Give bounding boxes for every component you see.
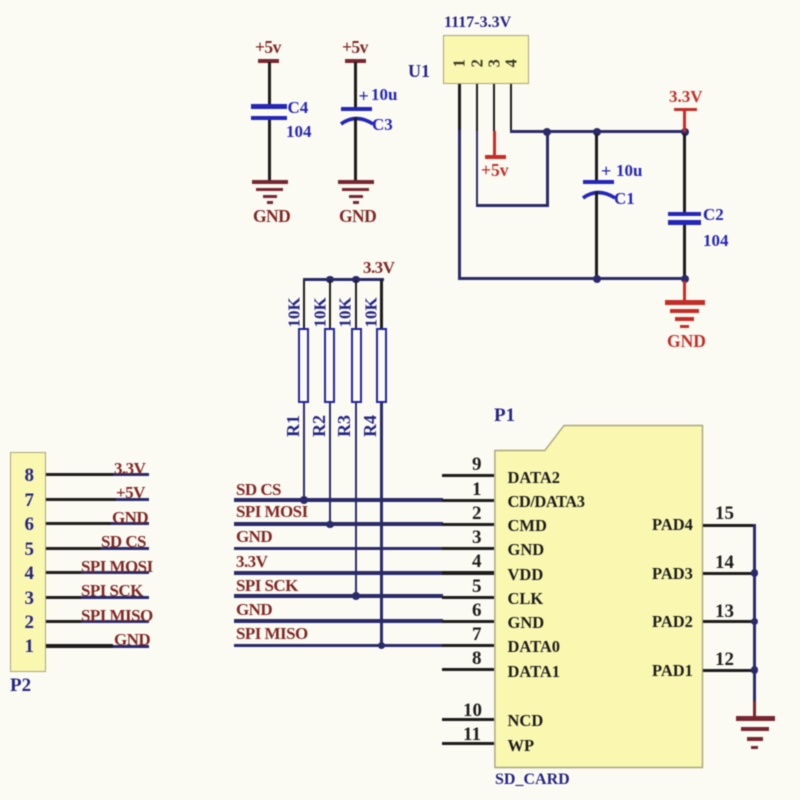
P1 label CMD — [508, 518, 547, 535]
P1 pin 5 number — [472, 577, 482, 596]
plus sign (C1) — [601, 162, 611, 180]
+5v label (C4) — [255, 39, 281, 57]
+5v label (C3) — [342, 39, 368, 57]
resistor R4 body — [376, 328, 387, 403]
wire SPI_SCK row — [234, 594, 443, 598]
ground symbol (pads) — [736, 716, 775, 721]
P2 pin 2 number — [25, 613, 35, 632]
+5v stem (U1) — [493, 131, 496, 155]
net label SPI_MOSI (middle) — [236, 503, 308, 520]
P2 body — [10, 452, 46, 672]
wire GND row upper — [234, 547, 443, 551]
resistor R4 top lead — [380, 280, 383, 328]
capacitor C2 plate 2 — [668, 220, 701, 225]
3.3V stem — [683, 111, 686, 132]
P1 label PAD1 — [652, 663, 693, 680]
P1 pin 6 number — [472, 601, 482, 620]
P2 net label SD_CS — [101, 533, 146, 550]
P2 pin 3 stub — [46, 596, 81, 599]
P2 pin 7 number — [25, 491, 35, 510]
P2 pin 6 stub — [46, 522, 111, 525]
junction R3 rail — [352, 276, 360, 284]
P2 pin 8 stub — [46, 473, 113, 476]
P1 label VDD — [508, 567, 544, 584]
P1 label DATA0 — [508, 639, 561, 656]
P2 pin 4 stub — [46, 571, 81, 574]
P1 label GND (pin3) — [508, 542, 545, 559]
value 10K (R2) — [311, 298, 328, 328]
junction R3 / SPI_SCK — [352, 592, 360, 600]
GND stem (right) — [683, 281, 686, 300]
P1 pin 12 stub — [703, 669, 755, 672]
P2 pin 1 number — [25, 637, 35, 656]
plus sign (C3) — [359, 87, 369, 105]
P2 pin 7 stub — [46, 498, 116, 501]
+5v bar (C3) — [345, 59, 366, 63]
P2 pin 6 wire — [111, 522, 149, 525]
designator R4 — [361, 411, 379, 441]
label C4 — [288, 99, 309, 116]
C2 top lead — [683, 134, 686, 212]
value 104 (C2) — [703, 232, 729, 249]
value 10u (C1) — [616, 162, 642, 179]
capacitor C4 plate 1 — [251, 104, 287, 109]
pin 3 lead — [493, 84, 496, 131]
resistor R2 top lead — [329, 280, 332, 328]
P2 pin 2 wire — [81, 620, 149, 623]
value 10K (R1) — [286, 298, 303, 328]
junction pad3 — [751, 569, 759, 577]
ground symbol (C3) — [338, 180, 374, 184]
junction R1 / SD_CS — [300, 496, 308, 504]
pin number 4 (U1) — [503, 55, 520, 72]
junction R2 rail — [326, 276, 334, 284]
wire C3 top lead — [354, 62, 357, 107]
resistor R3 body — [351, 328, 362, 403]
pin number 2 (U1) — [469, 55, 486, 72]
pin 4 lead — [510, 84, 513, 132]
P2 pin 3 number — [25, 589, 35, 608]
+5v label (U1) — [481, 162, 508, 180]
junction pin2 loop — [543, 128, 551, 136]
junction pad2 — [751, 618, 759, 626]
P1 pin 10 number — [463, 701, 482, 720]
P2 pin 1 stub — [46, 644, 113, 647]
wire GND row lower — [234, 619, 443, 623]
wire R2 bottom to SPI_MOSI row — [329, 403, 332, 525]
+5v bar (C4) — [258, 59, 279, 63]
value 10K (R3) — [337, 298, 354, 328]
wire SPI_MISO row — [234, 644, 443, 648]
value 10K (R4) — [362, 298, 379, 328]
junction R2 / SPI_MOSI — [326, 521, 334, 529]
P1 pin 5 stub — [442, 596, 495, 599]
junction R4 / SPI_MISO — [378, 642, 386, 650]
junction C1 ground — [593, 275, 601, 283]
wire ground rail bottom — [458, 277, 686, 280]
P1 pin 11 number — [463, 725, 481, 744]
net label SPI_SCK (middle) — [236, 577, 298, 594]
junction 3.3V corner — [681, 128, 689, 136]
P2 pin 6 number — [25, 515, 35, 534]
pin 1 lead — [458, 84, 461, 130]
junction C1 tap — [593, 128, 601, 136]
capacitor C3 curved plate — [336, 108, 378, 130]
C1 top lead — [595, 134, 598, 180]
C1 bottom lead — [595, 191, 598, 279]
P1 label WP — [508, 738, 535, 755]
pin number 3 (U1) — [486, 55, 503, 72]
wire 3.3V row — [234, 571, 443, 575]
wire R4 bottom to SPI_MISO row — [380, 403, 383, 647]
wire SPI_MOSI row — [234, 522, 443, 526]
P1 designator — [494, 406, 515, 425]
P1 pin 9 number — [472, 455, 482, 474]
P1 pin 3 number — [472, 528, 482, 547]
P1 pin 11 stub — [442, 742, 495, 745]
P1 label PAD4 — [652, 517, 693, 534]
U1 body — [443, 35, 529, 84]
P1 pin 4 stub — [442, 571, 495, 574]
pin number 1 (U1) — [451, 55, 468, 72]
P1 pin 4 number — [472, 552, 482, 571]
3.3V label (resistors) — [363, 259, 394, 276]
P1 pin 2 stub — [442, 523, 495, 526]
P1 pin 14 stub — [703, 572, 755, 575]
P1 pin 10 stub — [442, 718, 495, 721]
P2 pin 5 wire — [101, 547, 149, 550]
label 1117-3.3V — [444, 15, 511, 31]
wire pin2 loop down — [476, 131, 479, 207]
P2 pin 1 wire — [113, 645, 149, 648]
P2 pin 4 number — [25, 564, 35, 583]
resistor R2 body — [324, 328, 335, 403]
value 10u (C3) — [371, 86, 397, 103]
P1 pin 14 number — [715, 553, 734, 572]
junction C2 ground corner — [681, 275, 689, 283]
P1 pin 1 number — [472, 480, 482, 499]
wire pin2 loop horizontal — [476, 204, 548, 207]
wire 3.3V output rail — [510, 130, 686, 133]
U1 designator — [408, 62, 430, 80]
wire C4 top lead — [268, 62, 271, 104]
P2 net label +5V — [116, 484, 145, 501]
P1 body — [493, 424, 705, 769]
P2 pin 2 stub — [46, 620, 81, 623]
P2 designator — [10, 676, 31, 695]
P1 label PAD2 — [652, 614, 693, 631]
net label 3.3V (middle) — [236, 553, 267, 570]
SD_CARD label — [495, 772, 570, 788]
label C1 — [614, 190, 635, 207]
GND label (C3) — [339, 208, 376, 226]
P1 pin 3 stub — [442, 547, 495, 550]
net label SPI_MISO (middle) — [236, 625, 308, 642]
3.3V label — [669, 88, 703, 105]
wire 3.3V rail (resistors) — [303, 278, 384, 281]
P2 pin 5 stub — [46, 547, 101, 550]
designator R3 — [335, 411, 353, 441]
capacitor C1 curved plate — [578, 182, 620, 204]
P1 pin 15 stub — [703, 524, 755, 527]
GND label (C4) — [253, 208, 290, 226]
designator R1 — [284, 411, 302, 441]
P1 pin 12 number — [715, 650, 734, 669]
resistor R1 body — [298, 328, 309, 403]
resistor R3 top lead — [355, 280, 358, 328]
P2 pin 5 number — [25, 540, 35, 559]
P1 label DATA1 — [508, 664, 561, 681]
P1 pin 8 number — [472, 649, 482, 668]
P1 pin 13 stub — [703, 620, 755, 623]
P2 net label SPI_SCK — [81, 582, 143, 599]
ground symbol (C4) — [252, 180, 288, 184]
label C3 — [372, 116, 393, 133]
+5v bar (U1) — [485, 155, 506, 159]
P1 label CLK — [508, 591, 544, 608]
P2 pin 4 wire — [81, 571, 149, 574]
P1 label GND (pin6) — [508, 615, 545, 632]
capacitor C1 straight plate — [583, 180, 614, 184]
P2 pin 8 wire — [113, 473, 149, 476]
designator R2 — [310, 411, 328, 441]
wire R1 bottom to SD_CS row — [303, 403, 306, 501]
P1 pin 13 number — [715, 602, 734, 621]
wire pin1 to ground rail — [458, 130, 461, 280]
P2 net label GND (pin1) — [114, 631, 150, 648]
GND label (right) — [667, 333, 706, 351]
capacitor C2 plate 1 — [668, 212, 701, 217]
P2 net label GND — [112, 509, 148, 526]
P2 net label SPI_MISO — [81, 607, 153, 624]
P1 label CD/DATA3 — [508, 494, 585, 511]
P2 pin 3 wire — [81, 596, 149, 599]
P2 pin 8 number — [25, 466, 35, 485]
P2 net label SPI_MOSI — [81, 558, 153, 575]
GND stem (pads) — [753, 701, 756, 717]
P1 label PAD3 — [652, 566, 693, 583]
label C2 — [703, 206, 724, 223]
net label GND (middle upper) — [236, 528, 272, 545]
P1 pin 1 stub — [442, 499, 495, 502]
P1 label DATA2 — [508, 470, 561, 487]
resistor R1 top lead — [303, 280, 306, 328]
P1 pin 2 number — [472, 504, 482, 523]
capacitor C3 straight plate — [341, 107, 372, 111]
value 104 (C4) — [286, 123, 312, 140]
wire pin2 loop up — [546, 133, 549, 207]
3.3V bar — [674, 108, 697, 112]
C2 bottom lead — [683, 225, 686, 280]
net label GND (middle lower) — [236, 601, 272, 618]
P1 pin 8 stub — [442, 668, 495, 671]
P2 net label 3.3V — [114, 460, 145, 477]
pin 2 lead — [476, 84, 479, 131]
wire C4 bottom lead — [268, 120, 271, 180]
wire pad bus vertical — [753, 524, 756, 701]
wire C3 bottom lead — [354, 117, 357, 180]
P1 pin 9 stub — [442, 474, 495, 477]
P1 pin 7 stub — [442, 644, 495, 647]
capacitor C4 plate 2 — [251, 116, 287, 120]
ground symbol (right red) — [665, 300, 705, 305]
net label SD_CS (middle) — [236, 481, 281, 498]
P1 pin 7 number — [472, 625, 482, 644]
P1 label NCD — [508, 713, 544, 730]
P2 pin 7 wire — [116, 498, 149, 501]
P1 pin 6 stub — [442, 620, 495, 623]
wire R3 bottom to SPI_SCK row — [355, 403, 358, 597]
P1 pin 15 number — [715, 504, 734, 523]
junction pad1 — [751, 666, 759, 674]
wire SD_CS row — [234, 498, 443, 502]
